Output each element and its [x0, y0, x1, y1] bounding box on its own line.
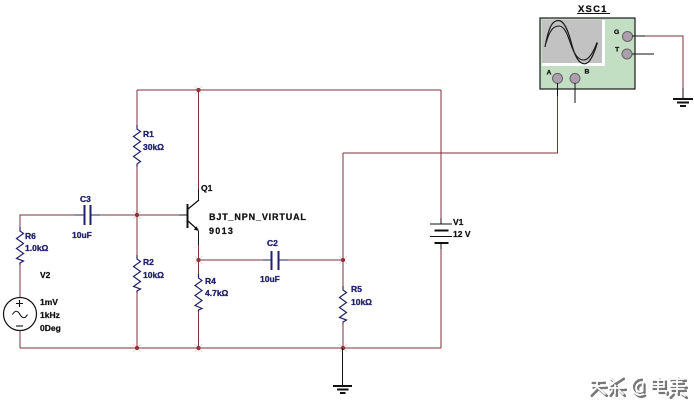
wire: bottom ground rail — [20, 347, 441, 349]
svg-text:G: G — [614, 29, 619, 36]
wire: top power rail — [137, 89, 441, 91]
svg-text:R1: R1 — [143, 129, 154, 139]
resistor R1 — [134, 125, 165, 167]
wire: base node to Q1 base — [137, 214, 179, 216]
watermark 头条@电巢 — [590, 377, 687, 398]
wire: C3 to base node — [100, 214, 137, 216]
node: emitter/R4/C2 junction — [195, 256, 203, 264]
svg-text:A: A — [547, 70, 552, 77]
resistor R2 — [134, 255, 165, 293]
resistor R6 — [17, 227, 49, 265]
svg-text:12 V: 12 V — [453, 229, 471, 239]
wire: V1 top — [440, 90, 442, 218]
wire: C2 right to output node — [288, 259, 343, 261]
source V2 — [4, 270, 61, 333]
svg-text:C3: C3 — [80, 194, 91, 204]
capacitor C2 — [260, 238, 288, 284]
svg-text:R4: R4 — [205, 276, 216, 286]
wire: scope A drop — [557, 95, 559, 153]
wire: R4 to ground rail — [198, 311, 200, 348]
svg-text:10uF: 10uF — [72, 230, 92, 240]
wire: input corner to C3 — [20, 215, 75, 227]
wire: scope A stub — [557, 83, 559, 96]
wire: R6 to V2 — [19, 264, 21, 298]
wire: V1 bottom — [440, 249, 442, 348]
wire: scope T stub — [632, 53, 654, 55]
battery V1 — [430, 217, 471, 250]
node: base junction — [133, 211, 141, 219]
wire: V2 bottom to rail — [19, 331, 21, 349]
svg-text:C2: C2 — [267, 238, 278, 248]
svg-text:1.0kΩ: 1.0kΩ — [25, 243, 49, 253]
wire: R1 to base node — [136, 166, 138, 215]
oscilloscope XSC1 — [540, 4, 635, 89]
svg-text:4.7kΩ: 4.7kΩ — [205, 288, 229, 298]
wire: node to R4 — [198, 260, 200, 276]
wire: R5 to ground rail — [342, 322, 344, 348]
svg-text:9013: 9013 — [209, 226, 234, 236]
resistor R5 — [340, 284, 373, 324]
wire: scope B stub — [574, 83, 576, 103]
svg-text:10uF: 10uF — [260, 274, 280, 284]
wire: scope A horizontal — [343, 152, 558, 154]
ground GND1 — [333, 348, 352, 393]
wire: emitter to output node — [198, 245, 200, 260]
svg-text:V2: V2 — [40, 270, 51, 280]
capacitor C3 — [72, 194, 100, 240]
svg-text:R6: R6 — [25, 231, 36, 241]
wire: output node to R5 — [342, 260, 344, 288]
node: output junction — [339, 256, 347, 264]
svg-text:R2: R2 — [143, 257, 154, 267]
svg-text:Q1: Q1 — [201, 183, 213, 193]
svg-text:30kΩ: 30kΩ — [143, 142, 164, 152]
svg-text:10kΩ: 10kΩ — [143, 270, 164, 280]
svg-text:10kΩ: 10kΩ — [351, 297, 372, 307]
node: ground junction — [339, 344, 347, 352]
svg-text:1mV: 1mV — [40, 297, 58, 307]
svg-text:B: B — [585, 69, 590, 76]
wire: scope G stub — [632, 35, 645, 37]
wire: output node to scope riser — [342, 153, 344, 260]
wire: R2 to ground rail — [136, 292, 138, 348]
wire: base node to R2 — [136, 215, 138, 257]
wire: C2 left — [199, 259, 264, 261]
svg-text:R5: R5 — [351, 284, 362, 294]
wire: rail to R1 — [136, 90, 138, 127]
node: collector/rail junction — [195, 86, 203, 94]
resistor R4 — [195, 274, 229, 312]
svg-text:V1: V1 — [453, 217, 464, 227]
node: R4 bottom junction — [195, 344, 203, 352]
svg-text:BJT_NPN_VIRTUAL: BJT_NPN_VIRTUAL — [209, 212, 307, 222]
wire: scope G to right ground — [645, 36, 683, 90]
wire: collector to rail — [198, 90, 200, 189]
node: R2 bottom junction — [133, 344, 141, 352]
ground GND2 — [673, 88, 693, 106]
svg-text:0Deg: 0Deg — [40, 323, 61, 333]
svg-text:1kHz: 1kHz — [40, 310, 60, 320]
transistor Q1 — [179, 183, 307, 246]
